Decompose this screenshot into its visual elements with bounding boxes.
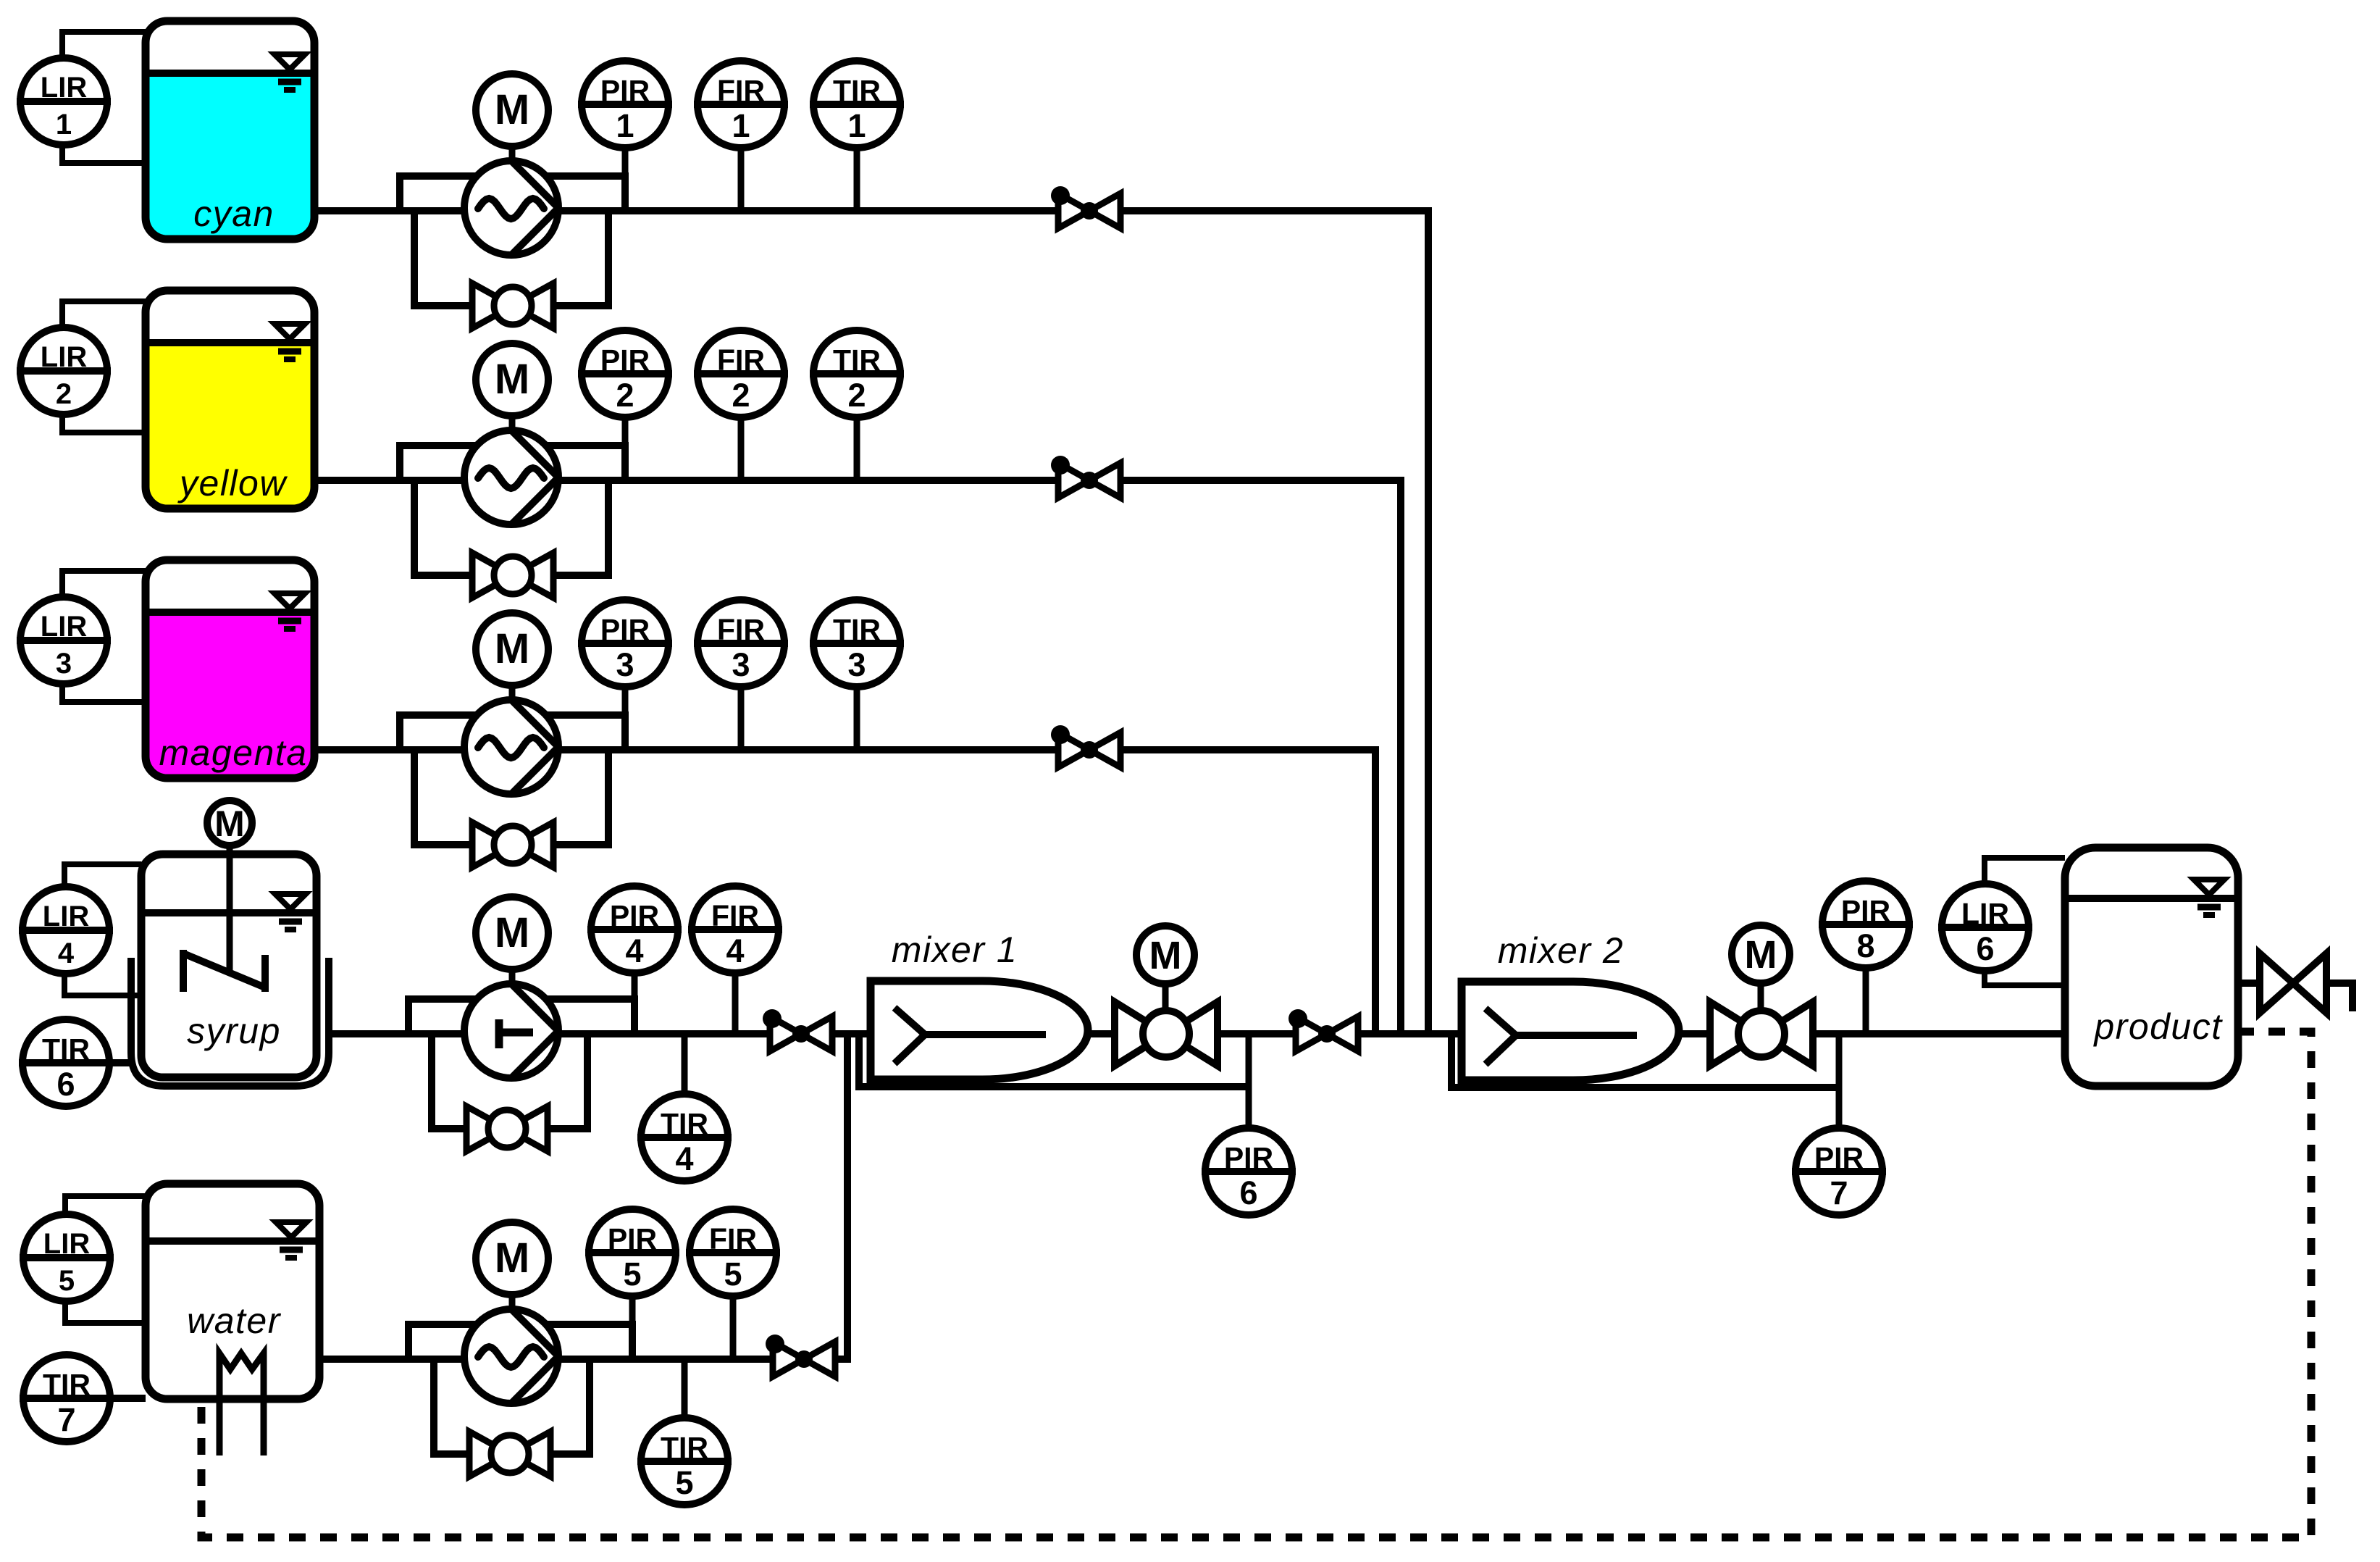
instrument FIR4 [732,972,739,1034]
pump P3 body [464,700,558,794]
svg-text:product: product [2092,1006,2223,1047]
svg-text:mixer 1: mixer 1 [892,930,1018,970]
dashed recycle line from T6 to T5 heater [201,1032,2311,1537]
instrument LIR1 with wires to T1 [62,32,146,62]
valve V7 product outlet [2260,953,2293,1013]
pump P3 bypass loop [414,750,608,845]
instrument FIR2 [738,416,745,480]
instrument LIR5 with wires to T5 [65,1196,146,1218]
pump P2 body [464,430,558,525]
svg-text:magenta: magenta [159,732,307,773]
svg-text:M: M [1149,934,1182,977]
svg-text:TIR: TIR [43,1368,91,1401]
svg-text:1: 1 [847,107,866,144]
bypass valve at pump P1 [472,283,513,328]
valve V4 on syrup line [770,1016,801,1051]
tank T4 syrup [141,854,317,1077]
bypass valve at pump P2 [472,553,513,598]
svg-text:FIR: FIR [717,613,765,646]
pump P4 body [464,984,558,1078]
svg-text:M: M [495,625,529,672]
svg-text:cyan: cyan [193,193,275,234]
pump P2 sine symbol [478,468,544,488]
heater coil in T5 [219,1353,264,1455]
instrument TIR5 below water line [682,1359,688,1419]
svg-text:4: 4 [675,1140,693,1177]
svg-text:5: 5 [59,1265,75,1297]
control valve CV2 after mixer2 with motor M [1710,1002,1761,1066]
instrument FIR3 [738,685,745,750]
svg-text:2: 2 [847,377,866,414]
svg-text:3: 3 [56,648,72,680]
pump P1 sine symbol [478,199,544,219]
pipe line3 magenta header with drop to mixer2 [314,750,1375,1034]
svg-text:M: M [495,909,529,956]
instrument LIR6 wires to T6 [1985,858,2065,887]
motor M of pump P5 [509,1295,516,1307]
instrument LIR6 [1942,884,2029,971]
pipe line1 cyan header with drop to mixer2 [314,211,1428,1034]
pump P2 shelf line with riser [400,446,625,480]
pump P4 bypass loop [432,1034,587,1129]
pipe line2 yellow header with drop to mixer2 [314,480,1401,1034]
pump P1 shelf line with riser [400,176,625,211]
instrument PIR7 below mixer2 bypass [1836,1034,1843,1129]
mixer 1 bypass loop [859,1034,1249,1087]
svg-text:6: 6 [56,1066,75,1103]
instrument TIR6 with wire to T4 jacket [66,1059,131,1066]
svg-text:M: M [1745,933,1777,977]
bypass valve at pump P3 [472,822,513,867]
pump P3 sine symbol [478,738,544,758]
svg-text:mixer 2: mixer 2 [1498,930,1624,971]
svg-text:TIR: TIR [661,1107,708,1140]
bypass valve at pump P4 [466,1106,507,1151]
instrument LIR2 with wires to T2 [62,301,146,331]
svg-text:3: 3 [616,646,634,683]
svg-text:7: 7 [57,1401,75,1438]
svg-text:4: 4 [625,932,643,969]
svg-text:M: M [495,1235,529,1282]
svg-text:M: M [495,86,529,133]
svg-text:water: water [187,1300,282,1341]
svg-text:FIR: FIR [717,74,765,107]
svg-text:6: 6 [1239,1174,1257,1211]
svg-text:TIR: TIR [833,74,881,107]
mixer 1 body [871,981,1088,1079]
svg-text:TIR: TIR [661,1431,708,1464]
pump P4 rotor triangle [511,984,558,1031]
instrument LIR4 with wires to T4 [64,864,141,890]
mixer 2 body [1462,982,1679,1080]
instrument FIR5 [730,1295,737,1359]
tank T1 cyan [146,21,314,239]
pump P4 tee symbol [495,1019,503,1048]
instrument TIR7 with wire to T5 [67,1395,146,1402]
svg-text:PIR: PIR [1814,1141,1864,1174]
motor M of pump P4 [509,970,516,982]
svg-text:5: 5 [724,1256,742,1292]
svg-text:5: 5 [623,1256,641,1292]
pump P5 rotor triangle [511,1309,558,1356]
pump P2 bypass loop [414,480,608,575]
pump P5 bypass loop [434,1359,590,1454]
svg-text:PIR: PIR [610,899,659,932]
pump P1 body [464,161,558,255]
instrument LIR3 with wires to T3 [62,571,146,601]
pump P5 body [464,1309,558,1403]
mixer 2 bypass loop [1451,1034,1839,1087]
pump P3 rotor triangle [511,700,558,747]
svg-text:6: 6 [1976,930,1994,967]
svg-text:FIR: FIR [717,343,765,377]
svg-text:yellow: yellow [177,463,288,504]
svg-text:PIR: PIR [608,1222,657,1256]
svg-text:LIR: LIR [43,901,90,932]
motor M of pump P1 [509,147,516,159]
svg-text:3: 3 [847,646,866,683]
instrument PIR4 [632,972,638,1034]
pump P4 shelf line with riser [408,999,634,1034]
svg-text:5: 5 [675,1464,693,1501]
motor M of pump P2 [509,417,516,428]
svg-text:TIR: TIR [833,613,881,646]
svg-text:PIR: PIR [600,74,650,107]
svg-text:FIR: FIR [709,1222,757,1256]
pump P3 shelf line with riser [400,715,625,750]
svg-text:4: 4 [58,937,75,969]
instrument PIR3 [622,685,629,750]
svg-text:LIR: LIR [41,341,88,373]
instrument PIR5 [629,1295,636,1359]
svg-text:PIR: PIR [1224,1141,1273,1174]
svg-text:1: 1 [732,107,750,144]
svg-text:3: 3 [732,646,750,683]
motor M of pump P3 [509,686,516,698]
instrument PIR8 [1863,966,1869,1034]
instrument TIR4 below syrup line [682,1034,688,1095]
pump P5 sine symbol [478,1347,544,1367]
bypass valve at pump P5 [469,1432,510,1477]
pipe water line with riser to main line [319,1034,847,1359]
svg-text:LIR: LIR [41,611,88,643]
pump P1 bypass loop [414,211,608,306]
tank T2 yellow [146,291,314,509]
svg-text:PIR: PIR [600,613,650,646]
instrument PIR6 below mixer1 outlet [1246,1034,1252,1129]
tank T4 syrup jacket [131,958,329,1086]
svg-text:PIR: PIR [1841,894,1890,927]
svg-text:TIR: TIR [42,1032,90,1066]
valve V5 on water line [773,1342,804,1377]
svg-text:1: 1 [616,107,634,144]
pump P2 rotor triangle [511,430,558,477]
valve V2 on line2 [1058,463,1089,498]
svg-text:M: M [214,803,245,844]
svg-text:2: 2 [616,377,634,414]
pipe product outlet with stub down [2234,983,2352,1011]
svg-text:1: 1 [56,109,72,141]
tank T3 magenta [146,560,314,778]
pump P1 rotor triangle [511,161,558,208]
svg-text:syrup: syrup [187,1011,281,1051]
agitator impeller [180,950,187,992]
instrument PIR2 [622,416,629,480]
tank T6 product [2065,848,2238,1086]
valve V6 after mixer1 [1296,1016,1327,1051]
mixer 2 chevron symbol [1486,1008,1516,1064]
svg-text:PIR: PIR [600,343,650,377]
svg-text:TIR: TIR [833,343,881,377]
pipe main process line syrup to product [327,1030,2065,1037]
valve V1 on line1 [1058,193,1089,228]
svg-text:8: 8 [1856,927,1874,964]
svg-text:M: M [495,356,529,403]
svg-text:LIR: LIR [43,1228,91,1260]
svg-text:2: 2 [732,377,750,414]
svg-text:LIR: LIR [41,72,88,104]
svg-text:LIR: LIR [1961,897,2009,930]
control valve CV1 after mixer1 with motor M [1115,1002,1166,1066]
instrument FIR1 [738,146,745,211]
tank T5 water [146,1184,319,1399]
agitator motor M on T4 [207,801,252,845]
svg-text:FIR: FIR [711,899,759,932]
agitator shaft [227,846,233,972]
instrument TIR1 [854,146,860,211]
mixer 1 chevron symbol [894,1008,925,1064]
svg-text:4: 4 [726,932,744,969]
pump P5 shelf line with riser [408,1324,632,1359]
instrument TIR3 [854,685,860,750]
valve V3 on line3 [1058,732,1089,767]
svg-text:2: 2 [56,378,72,410]
svg-text:7: 7 [1830,1174,1848,1211]
instrument PIR1 [622,146,629,211]
instrument TIR2 [854,416,860,480]
